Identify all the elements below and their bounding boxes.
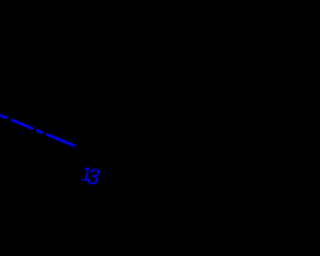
map tile: depth contour — [0, 0, 256, 256]
svg-text:3: 3 — [86, 164, 102, 190]
depth contour line (dashed blue) — [0, 115, 75, 146]
